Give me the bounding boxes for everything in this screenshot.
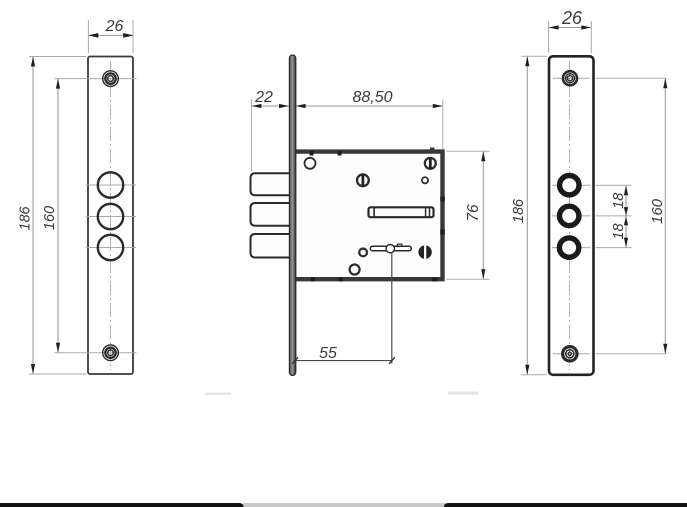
svg-text:160: 160 [649,198,666,224]
svg-text:88,50: 88,50 [352,89,392,106]
svg-text:26: 26 [561,8,583,28]
svg-text:186: 186 [18,205,34,230]
svg-text:18: 18 [611,223,627,239]
svg-text:76: 76 [465,204,482,222]
svg-text:160: 160 [42,206,58,230]
svg-text:186: 186 [511,198,527,223]
svg-text:26: 26 [105,18,124,35]
svg-text:55: 55 [319,345,337,362]
svg-text:22: 22 [254,89,273,106]
svg-text:18: 18 [611,193,627,209]
